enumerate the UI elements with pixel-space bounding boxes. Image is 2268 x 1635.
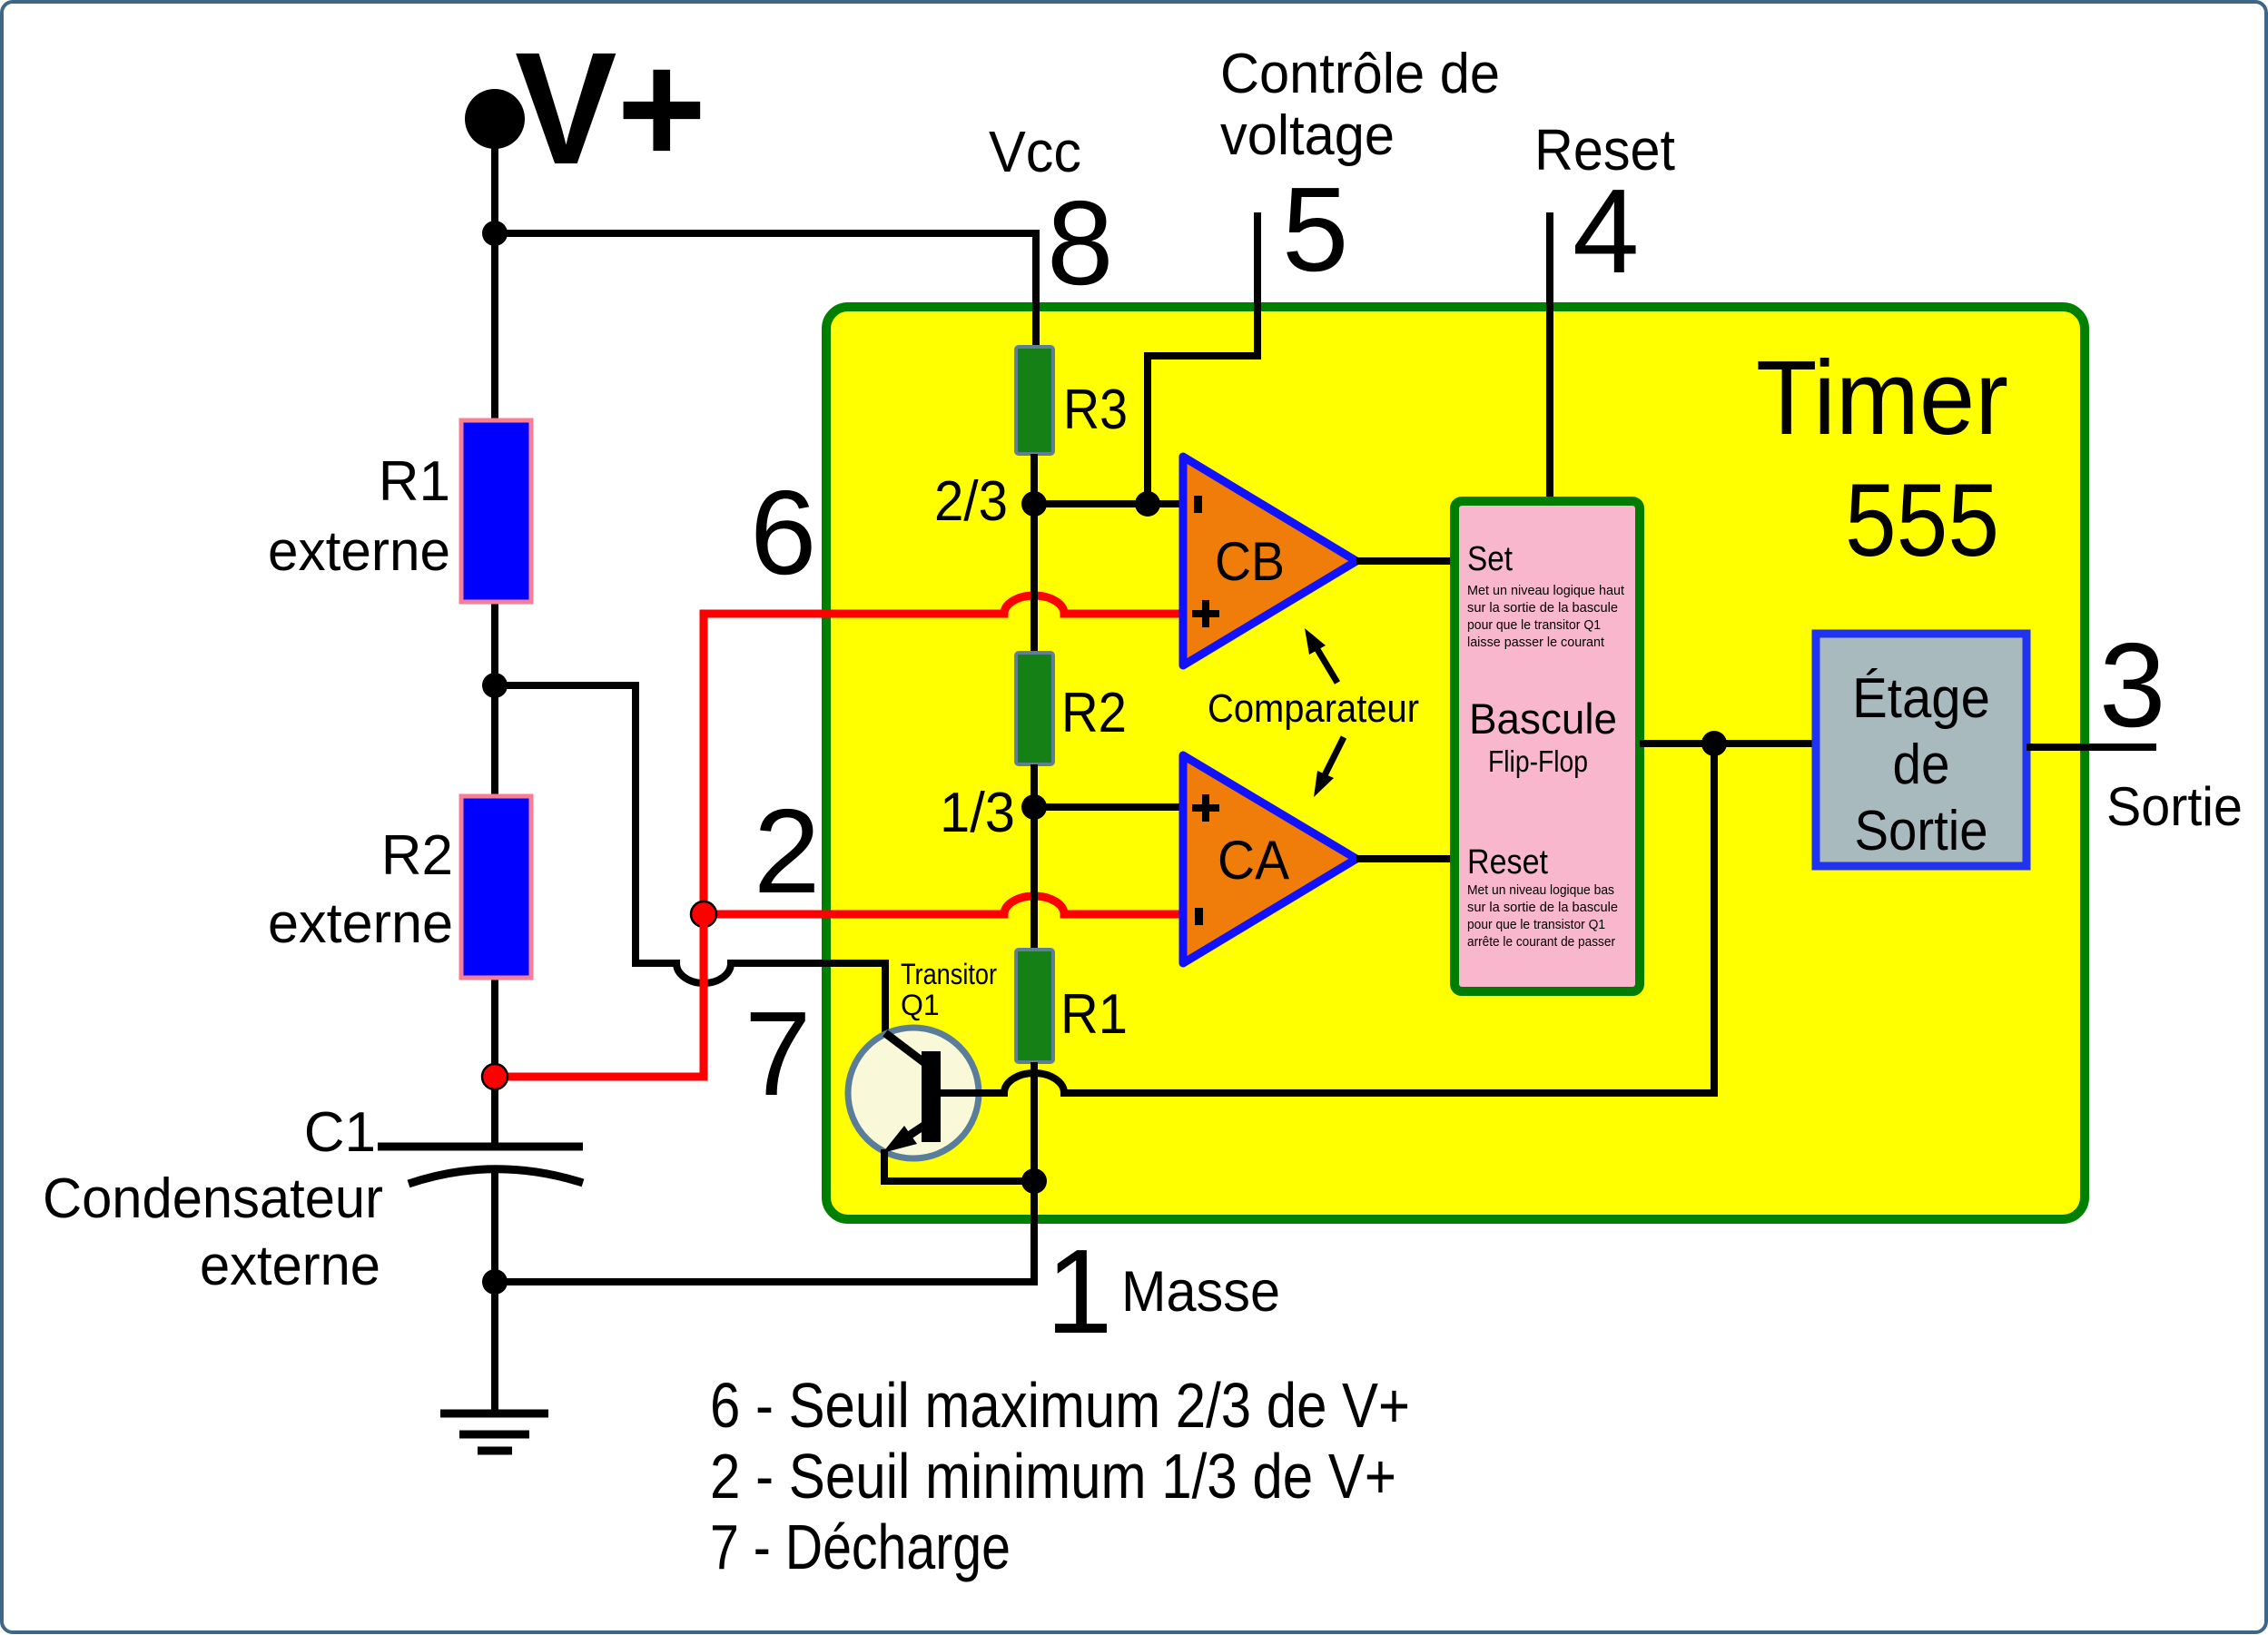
svg-text:Met un niveau logique bas: Met un niveau logique bas — [1467, 882, 1614, 898]
svg-text:2 - Seuil minimum 1/3 de V+: 2 - Seuil minimum 1/3 de V+ — [710, 1441, 1396, 1512]
wire red to C1 node — [495, 914, 704, 1077]
wire pin 7 discharge path — [495, 685, 925, 1065]
node R1/R2 junction — [482, 673, 508, 698]
svg-text:5: 5 — [1282, 163, 1348, 296]
svg-text:externe: externe — [268, 892, 453, 955]
wire V+ to pin 8 — [495, 233, 1036, 347]
CB plus input mark — [1192, 600, 1219, 627]
svg-text:Flip-Flop: Flip-Flop — [1488, 744, 1588, 778]
node pin5 junction — [1135, 491, 1160, 517]
svg-text:Q1: Q1 — [901, 989, 940, 1021]
wire node 2/3 to comparator CB minus — [1034, 500, 1182, 507]
svg-text:sur la sortie de la bascule: sur la sortie de la bascule — [1467, 900, 1618, 915]
svg-text:R2: R2 — [1061, 682, 1127, 744]
wire pin 2 trigger (red) — [704, 896, 1182, 914]
svg-text:CB: CB — [1215, 531, 1285, 592]
wire node 1/3 to comparator CA plus — [1034, 803, 1182, 811]
svg-text:Set: Set — [1467, 540, 1513, 578]
svg-text:R1: R1 — [1060, 983, 1128, 1046]
Q1 collector lead — [885, 1033, 926, 1064]
op-amp CB — [1183, 457, 1356, 665]
arrow to CB — [1316, 646, 1337, 683]
svg-text:2/3: 2/3 — [934, 470, 1008, 533]
node V+ terminal — [465, 89, 525, 149]
svg-text:6 - Seuil maximum 2/3 de V+: 6 - Seuil maximum 2/3 de V+ — [710, 1370, 1410, 1441]
svg-text:C1: C1 — [304, 1101, 376, 1164]
svg-text:externe: externe — [268, 520, 450, 583]
capacitor C1 — [378, 1143, 583, 1151]
wire Masse pin 1 — [495, 1181, 1034, 1282]
svg-text:7: 7 — [744, 987, 811, 1120]
svg-text:Masse: Masse — [1121, 1260, 1280, 1324]
wire R2 to R1 — [1030, 764, 1038, 950]
svg-text:Comparateur: Comparateur — [1208, 686, 1419, 731]
wire R3 to R2 — [1030, 454, 1038, 653]
resistor R1 externe — [461, 420, 531, 602]
wire CB output to Set — [1356, 557, 1454, 565]
svg-text:8: 8 — [1047, 176, 1113, 310]
svg-text:Étage: Étage — [1852, 667, 1990, 730]
svg-text:1: 1 — [1046, 1225, 1112, 1358]
svg-text:R3: R3 — [1063, 379, 1128, 441]
svg-text:pour que le transitor Q1: pour que le transitor Q1 — [1467, 617, 1601, 633]
Q1 base bar — [922, 1051, 941, 1142]
svg-text:Contrôle de: Contrôle de — [1220, 43, 1500, 105]
svg-text:7 - Décharge: 7 - Décharge — [710, 1512, 1011, 1582]
node V+ junction — [482, 221, 508, 246]
svg-text:laisse passer le courant: laisse passer le courant — [1467, 635, 1605, 650]
wire flip-flop output — [1640, 740, 1816, 747]
flip-flop Bascule — [1454, 501, 1640, 991]
svg-text:2: 2 — [754, 784, 820, 918]
svg-text:Condensateur: Condensateur — [43, 1167, 383, 1230]
node 1/3 — [1021, 794, 1047, 820]
svg-text:Vcc: Vcc — [989, 119, 1081, 184]
svg-text:3: 3 — [2099, 618, 2165, 752]
wire feedback to Q1 base — [940, 744, 1714, 1093]
wire V+ rail (vertical) — [491, 119, 498, 1413]
CA plus input mark — [1192, 794, 1219, 822]
svg-text:Timer: Timer — [1756, 339, 2008, 457]
svg-text:Reset: Reset — [1467, 843, 1548, 882]
svg-text:voltage: voltage — [1220, 104, 1395, 167]
block Etage de Sortie — [1816, 634, 2026, 866]
svg-text:de: de — [1893, 734, 1950, 796]
node R2/C1 junction (red) — [482, 1064, 508, 1089]
ground — [440, 1413, 548, 1451]
op-amp CA — [1183, 755, 1356, 963]
node flip-flop output junction — [1701, 731, 1727, 756]
node ground junction — [482, 1269, 508, 1295]
wire CA output to Reset — [1356, 855, 1454, 862]
svg-text:555: 555 — [1845, 463, 1999, 578]
wire pin 3 output — [2026, 744, 2156, 751]
node pin2/pin6 red junction — [691, 901, 716, 927]
svg-text:Sortie: Sortie — [1855, 800, 1988, 862]
svg-text:R1: R1 — [379, 450, 450, 513]
transistor Q1 — [848, 1028, 979, 1158]
svg-text:sur la sortie de la bascule: sur la sortie de la bascule — [1467, 600, 1618, 616]
wire pin 4 reset — [1546, 212, 1553, 501]
svg-text:1/3: 1/3 — [940, 782, 1015, 844]
wire pin 5 control voltage — [1148, 212, 1257, 504]
node 2/3 — [1021, 491, 1047, 517]
svg-text:Met un niveau logique haut: Met un niveau logique haut — [1467, 583, 1625, 598]
svg-text:R2: R2 — [381, 824, 453, 887]
svg-text:V+: V+ — [515, 20, 706, 198]
CA minus input mark — [1195, 908, 1203, 925]
resistor R2 externe — [461, 796, 531, 978]
wire pin 6 threshold (red) — [704, 596, 1182, 914]
svg-text:6: 6 — [750, 466, 816, 599]
IC body Timer 555 (yellow block) — [826, 307, 2085, 1219]
svg-text:CA: CA — [1218, 830, 1289, 891]
Q1 emitter lead with arrow — [906, 1123, 928, 1138]
svg-text:4: 4 — [1573, 164, 1639, 298]
arrow to CA — [1325, 737, 1344, 775]
svg-text:Sortie: Sortie — [2106, 776, 2243, 837]
svg-text:externe: externe — [200, 1235, 380, 1297]
resistor R2 interne — [1016, 653, 1053, 764]
wire R1 to pin1 node — [1030, 1062, 1038, 1181]
resistor R1 interne — [1016, 950, 1053, 1062]
svg-text:arrête le courant de passer: arrête le courant de passer — [1467, 934, 1615, 950]
Q1 base lead — [940, 1089, 1004, 1097]
CB minus input mark — [1194, 496, 1202, 513]
resistor R3 — [1016, 347, 1053, 454]
svg-text:Bascule: Bascule — [1469, 694, 1617, 743]
svg-text:Transitor: Transitor — [901, 958, 997, 990]
svg-text:pour que le transistor Q1: pour que le transistor Q1 — [1467, 917, 1605, 932]
node emitter/pin1 junction — [1021, 1168, 1047, 1194]
